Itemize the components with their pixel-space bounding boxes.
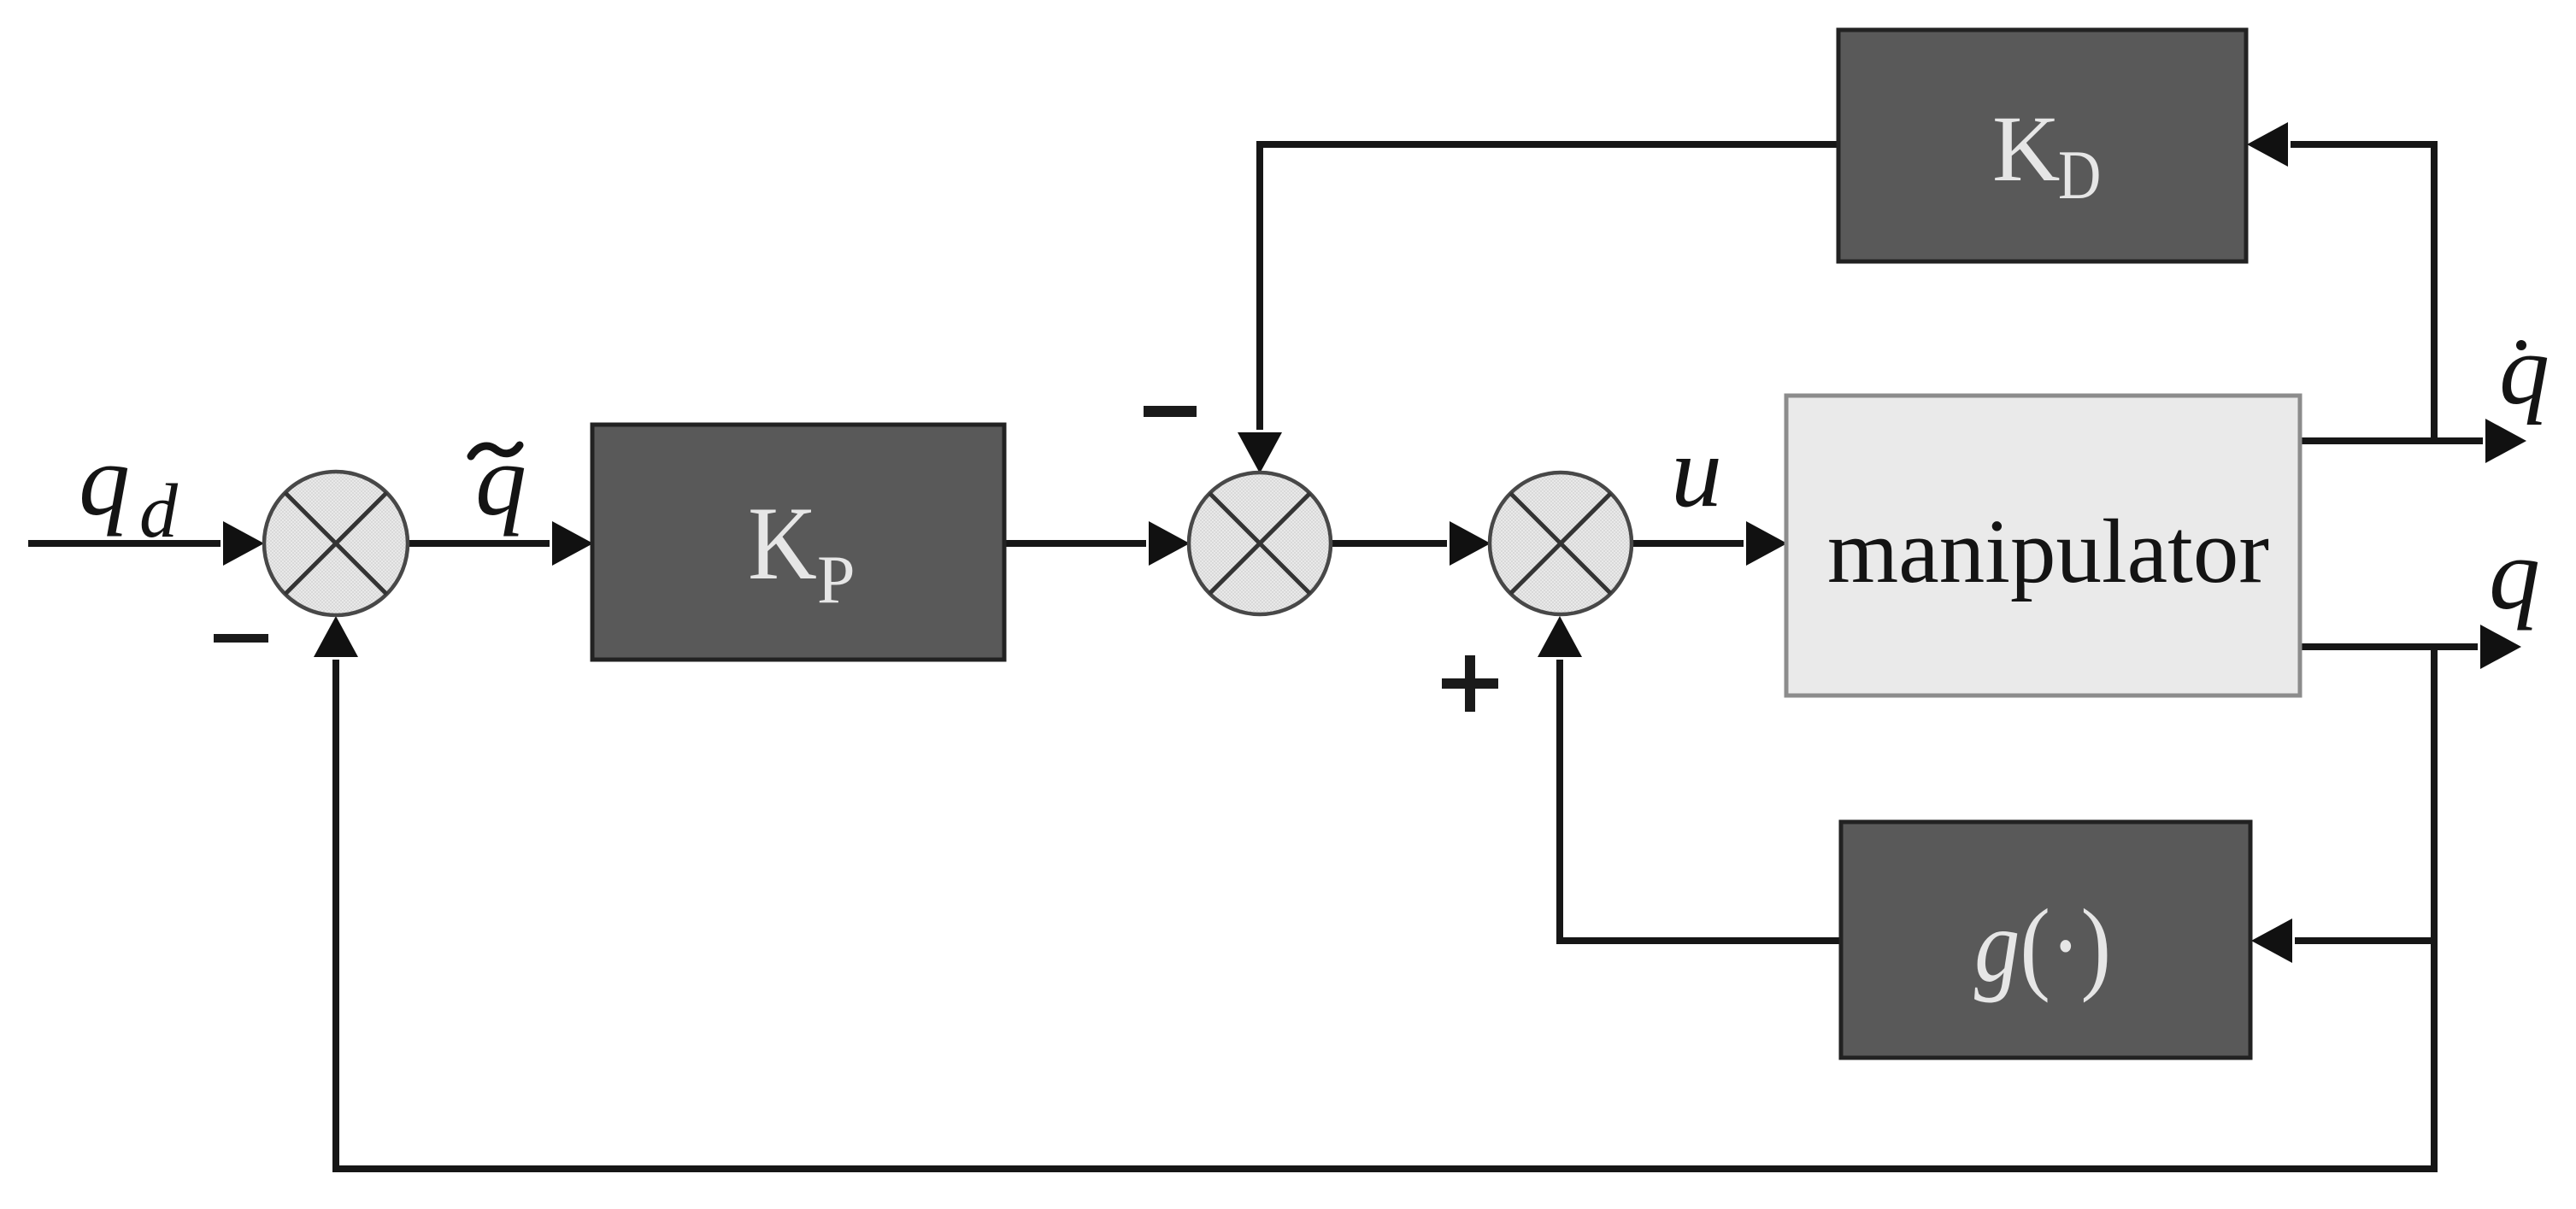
- svg-text:K: K: [1992, 97, 2060, 201]
- svg-text:D: D: [2058, 137, 2101, 214]
- svg-text:K: K: [748, 485, 817, 602]
- svg-text:P: P: [817, 543, 856, 618]
- svg-text:g(·): g(·): [1974, 888, 2111, 1003]
- svg-text:u: u: [1671, 414, 1722, 528]
- svg-text:q: q: [2499, 314, 2550, 425]
- svg-text:manipulator: manipulator: [1827, 502, 2269, 602]
- svg-text:q: q: [2489, 517, 2540, 631]
- svg-text:q: q: [475, 423, 526, 537]
- svg-text:q: q: [79, 423, 130, 537]
- svg-text:d: d: [139, 469, 179, 554]
